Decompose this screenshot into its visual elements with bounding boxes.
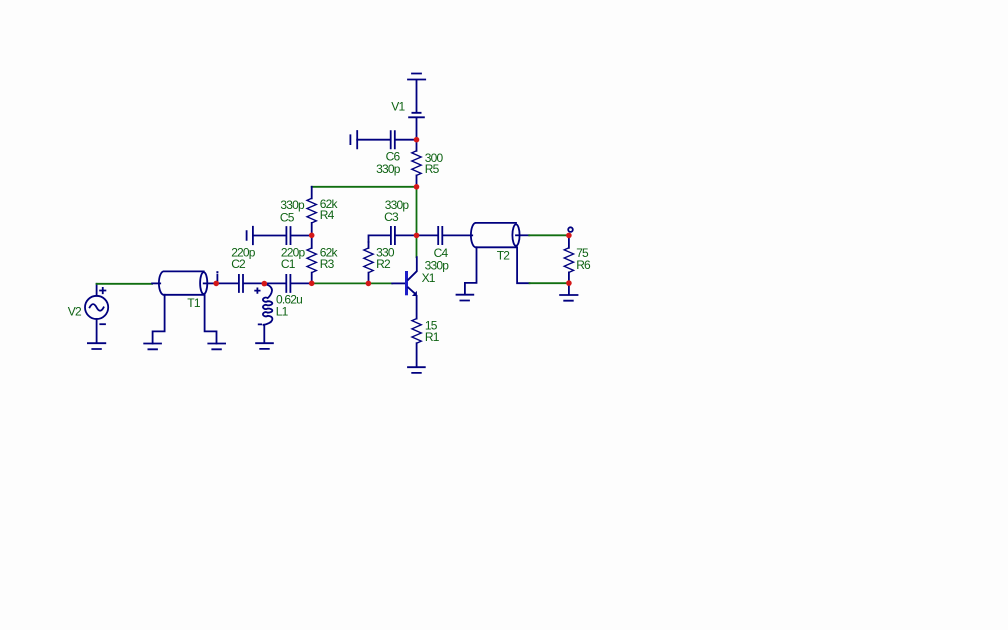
- battery V1: [408, 74, 425, 140]
- transmission line T2: [471, 223, 529, 247]
- T1 right pin to ground: [205, 295, 217, 344]
- ground (rotated, at C6 left): [350, 131, 357, 148]
- wire V2 to T1: [97, 283, 153, 285]
- svg-text:R1: R1: [425, 330, 440, 344]
- transmission line T1: [152, 271, 216, 294]
- T1 left pin to ground: [153, 295, 165, 344]
- svg-text:T1: T1: [187, 296, 201, 310]
- resistor R3: [307, 235, 316, 283]
- svg-text:R2: R2: [376, 257, 391, 271]
- ground (T2 left): [457, 295, 474, 301]
- svg-text:R4: R4: [320, 208, 335, 222]
- wire node2 to node3 (vertical): [416, 187, 418, 236]
- resistor R1: [412, 319, 421, 367]
- source V2: [85, 284, 108, 342]
- ground (V2): [88, 343, 105, 349]
- wire T2 bottom to R6 bottom: [530, 282, 569, 284]
- wire T2 out to R6 top: [529, 234, 569, 236]
- svg-text:V2: V2: [68, 305, 82, 319]
- R6 ground stub: [568, 283, 570, 294]
- resistor R4: [307, 187, 316, 236]
- ground (T1 left): [144, 344, 161, 350]
- svg-text:R3: R3: [320, 257, 335, 271]
- capacitor C1: [264, 275, 311, 292]
- svg-text:C5: C5: [280, 211, 295, 225]
- svg-text:C3: C3: [384, 210, 399, 224]
- X1 base lead: [392, 282, 405, 284]
- svg-text:R5: R5: [425, 162, 440, 176]
- ground (T1 right): [208, 344, 225, 350]
- svg-text:R6: R6: [576, 258, 591, 272]
- wire node V1 to R4 top (horizontal): [312, 186, 417, 188]
- resistor R6: [564, 235, 573, 283]
- capacitor C4: [417, 227, 473, 244]
- svg-text:T2: T2: [497, 248, 511, 262]
- capacitor C6: [357, 131, 416, 148]
- resistor R5: [412, 140, 421, 187]
- transistor X1: [405, 257, 417, 318]
- ground (rotated, at C5 left): [247, 227, 253, 244]
- svg-text:L1: L1: [276, 305, 289, 319]
- svg-text:330p: 330p: [425, 258, 450, 272]
- svg-text:C1: C1: [281, 257, 296, 271]
- capacitor C2: [216, 275, 264, 292]
- node label o: [568, 227, 573, 232]
- node label i: [216, 271, 218, 281]
- svg-text:330p: 330p: [376, 162, 401, 176]
- wire R2 node to X1 base: [368, 282, 392, 284]
- T2 right pin down: [517, 247, 529, 283]
- ground (L1): [256, 343, 273, 349]
- capacitor C5: [253, 227, 312, 244]
- svg-text:X1: X1: [422, 271, 436, 285]
- svg-text:C2: C2: [231, 257, 246, 271]
- capacitor C3: [369, 227, 417, 244]
- ground (R6): [560, 295, 577, 301]
- wire R3 node to R2 node: [312, 282, 369, 284]
- inductor L1: [255, 284, 272, 342]
- resistor R2: [364, 242, 373, 283]
- ground (R1): [408, 367, 425, 373]
- wire node3 to X1 collector: [416, 235, 418, 257]
- junction node dots: [213, 137, 571, 287]
- T2 left pin to ground: [465, 247, 477, 294]
- svg-text:V1: V1: [391, 100, 405, 114]
